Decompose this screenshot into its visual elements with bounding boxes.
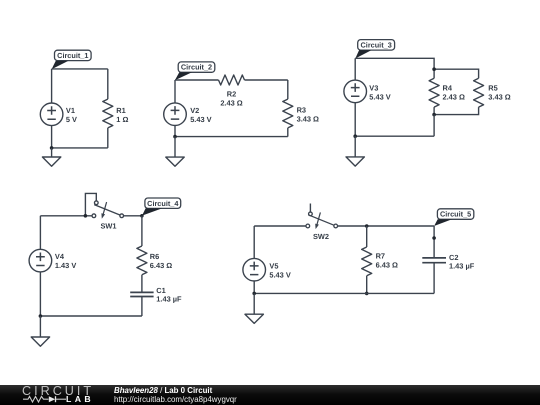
wire top left Circuit 2: [175, 79, 219, 81]
label C1 1.43 uF: [156, 286, 182, 303]
wire bottom Circuit 3: [355, 135, 434, 137]
svg-text:1.43 µF: 1.43 µF: [449, 261, 475, 270]
label V1 5 V: [66, 106, 77, 124]
CircuitLab logo wordmark LAB: [66, 394, 94, 404]
ground Circuit 1: [42, 157, 60, 166]
wire left lower Circuit 4: [39, 272, 41, 316]
wire R4 top stub: [433, 69, 435, 78]
resistor R2: [219, 75, 245, 85]
wire right lower Circuit 1: [107, 128, 109, 148]
wire C2 to bottom Circuit 5: [433, 263, 435, 294]
wire right lower Circuit 2: [287, 128, 289, 137]
resistor R1: [103, 99, 113, 128]
flag pointer Circuit_3: [355, 50, 371, 58]
voltage source V3: [344, 80, 367, 103]
wire switch right to corner Circuit 5: [338, 225, 434, 227]
wire corner down to C2: [433, 226, 435, 258]
wire top Circuit_1: [52, 68, 108, 70]
wire left lower Circuit 3: [354, 103, 356, 137]
wire left upper Circuit 2: [174, 80, 176, 103]
voltage source V1: [40, 103, 63, 126]
wire branch to R5 top: [434, 69, 479, 78]
svg-text:V2: V2: [190, 106, 199, 115]
wire switch right to corner Circuit 4: [124, 215, 142, 217]
ground stem Circuit 3: [354, 136, 356, 157]
node label Circuit_2: [178, 62, 215, 72]
wire left lower Circuit 2: [174, 126, 176, 137]
wire left lower Circuit 1: [51, 126, 53, 148]
wire left lower Circuit 5: [253, 281, 255, 293]
resistor R5: [474, 78, 484, 107]
label R5 3.43 ohm: [488, 83, 510, 101]
wire bottom Circuit 4: [40, 315, 141, 317]
wire right upper Circuit 1: [107, 69, 109, 99]
wire left upper Circuit 3: [354, 58, 356, 80]
svg-text:3.43 Ω: 3.43 Ω: [297, 114, 319, 123]
wire bottom Circuit 2: [175, 136, 288, 138]
svg-text:6.43 Ω: 6.43 Ω: [150, 261, 172, 270]
junction dot R7 bottom: [365, 292, 369, 296]
junction dot Circuit 2: [173, 135, 177, 139]
svg-text:Circuit_4: Circuit_4: [147, 199, 179, 208]
svg-text:5.43 V: 5.43 V: [369, 93, 390, 102]
label R4 2.43 ohm: [443, 83, 465, 101]
switch SW1: [92, 201, 123, 219]
capacitor C1: [130, 292, 153, 296]
CircuitLab logo wordmark CIRCUIT: [22, 384, 94, 398]
corner junction dot Circuit 4: [140, 214, 144, 218]
svg-text:5.43 V: 5.43 V: [269, 270, 290, 279]
wire top right Circuit 2: [245, 79, 288, 81]
wire top left Circuit 5: [254, 225, 306, 227]
svg-text:1.43 µF: 1.43 µF: [156, 295, 182, 304]
svg-text:Circuit_2: Circuit_2: [181, 63, 212, 72]
label R3 3.43 ohm: [297, 105, 319, 123]
svg-text:5.43 V: 5.43 V: [190, 115, 211, 124]
wire below junction B: [433, 115, 435, 137]
svg-text:Circuit_3: Circuit_3: [361, 41, 392, 50]
resistor R3: [283, 99, 293, 128]
footer url text: [114, 395, 237, 404]
label C2 1.43 uF: [449, 253, 475, 270]
label R1 1 ohm: [116, 106, 128, 124]
wire bottom Circuit 5: [254, 292, 434, 294]
svg-text:3.43 Ω: 3.43 Ω: [488, 92, 510, 101]
ground Circuit 3: [346, 157, 364, 166]
resistor R4: [429, 78, 439, 107]
junction dot B Circuit 3: [432, 113, 436, 117]
footer bar: [0, 385, 540, 405]
flag pointer Circuit_2: [175, 72, 192, 80]
footer title text: [114, 386, 212, 395]
ground stem Circuit 2: [174, 137, 176, 158]
wire left upper Circuit_1: [51, 69, 53, 103]
svg-text:R3: R3: [297, 105, 306, 114]
svg-text:R2: R2: [227, 89, 236, 98]
wire C1 to bottom Circuit 4: [141, 297, 143, 317]
svg-text:Circuit_5: Circuit_5: [440, 210, 471, 219]
voltage source V4: [29, 249, 52, 272]
ground stem Circuit 1: [51, 148, 53, 157]
svg-text:SW1: SW1: [100, 222, 116, 231]
voltage source V2: [164, 103, 187, 126]
svg-text:1 Ω: 1 Ω: [116, 115, 128, 124]
label R6 6.43 ohm: [150, 252, 172, 270]
svg-text:V1: V1: [66, 106, 75, 115]
label R7 6.43 ohm: [376, 251, 398, 269]
label V3 5.43 V: [369, 84, 390, 102]
wire left upper Circuit 5: [253, 226, 255, 258]
node label Circuit_1: [55, 50, 92, 60]
label V5 5.43 V: [269, 261, 290, 279]
junction dot below corner Circuit 5: [432, 236, 436, 240]
node label Circuit_5: [437, 209, 473, 220]
junction dot SW1 loop: [84, 214, 88, 218]
wire bottom Circuit 1: [52, 147, 108, 149]
flag pointer Circuit_5: [434, 219, 452, 226]
label V4 1.43 V: [55, 252, 76, 270]
switch SW2: [306, 204, 338, 230]
svg-text:2.43 Ω: 2.43 Ω: [443, 92, 465, 101]
wire R4 bottom stub: [433, 107, 435, 115]
svg-text:6.43 Ω: 6.43 Ω: [376, 260, 398, 269]
svg-text:2.43 Ω: 2.43 Ω: [220, 98, 242, 107]
svg-text:Circuit_1: Circuit_1: [57, 51, 88, 60]
ground Circuit 2: [166, 157, 184, 166]
flag pointer Circuit_4: [142, 208, 162, 215]
junction dot Circuit 1: [50, 146, 54, 150]
ground Circuit 5: [245, 314, 263, 323]
ground stem Circuit 4: [39, 316, 41, 337]
junction dot bottom Circuit 5: [252, 292, 256, 296]
ground Circuit 4: [31, 337, 49, 346]
voltage source V5: [243, 258, 266, 281]
capacitor C2: [422, 258, 446, 263]
node label Circuit_3: [358, 40, 395, 51]
svg-text:5 V: 5 V: [66, 115, 77, 124]
wire R5 bottom to junction: [434, 107, 479, 115]
svg-text:R6: R6: [150, 252, 159, 261]
svg-text:V5: V5: [269, 261, 278, 270]
resistor R6: [137, 246, 147, 275]
wire switch bypass loop SW1: [85, 193, 96, 215]
flag pointer Circuit_1: [52, 61, 69, 69]
label R2 2.43 ohm: [220, 89, 242, 107]
wire right upper Circuit 4: [141, 216, 143, 246]
ground stem Circuit 5: [253, 293, 255, 314]
wire R7 bottom stub: [366, 276, 368, 294]
wire left upper Circuit 4: [39, 216, 41, 250]
wire R7 top stub: [366, 226, 368, 247]
wire top left Circuit 4: [40, 215, 92, 217]
svg-text:V3: V3: [369, 84, 378, 93]
junction dot R7 top: [365, 224, 369, 228]
junction dot bottom Circuit 3: [353, 134, 357, 138]
wire R6 to C1: [141, 275, 143, 293]
svg-text:V4: V4: [55, 252, 65, 261]
svg-text:1.43 V: 1.43 V: [55, 261, 76, 270]
svg-text:SW2: SW2: [313, 232, 329, 241]
node label Circuit_4: [145, 198, 181, 208]
svg-text:R1: R1: [116, 106, 125, 115]
svg-text:R7: R7: [376, 251, 385, 260]
junction dot bottom Circuit 4: [39, 314, 43, 318]
svg-text:R4: R4: [443, 83, 453, 92]
label V2 5.43 V: [190, 106, 211, 124]
wire right upper Circuit 2: [287, 80, 289, 99]
resistor R7: [362, 247, 372, 276]
wire top Circuit 3: [355, 58, 434, 69]
CircuitLab logo resistor-diode glyph: [22, 395, 90, 403]
junction dot A Circuit 3: [432, 67, 436, 71]
svg-text:R5: R5: [488, 83, 497, 92]
